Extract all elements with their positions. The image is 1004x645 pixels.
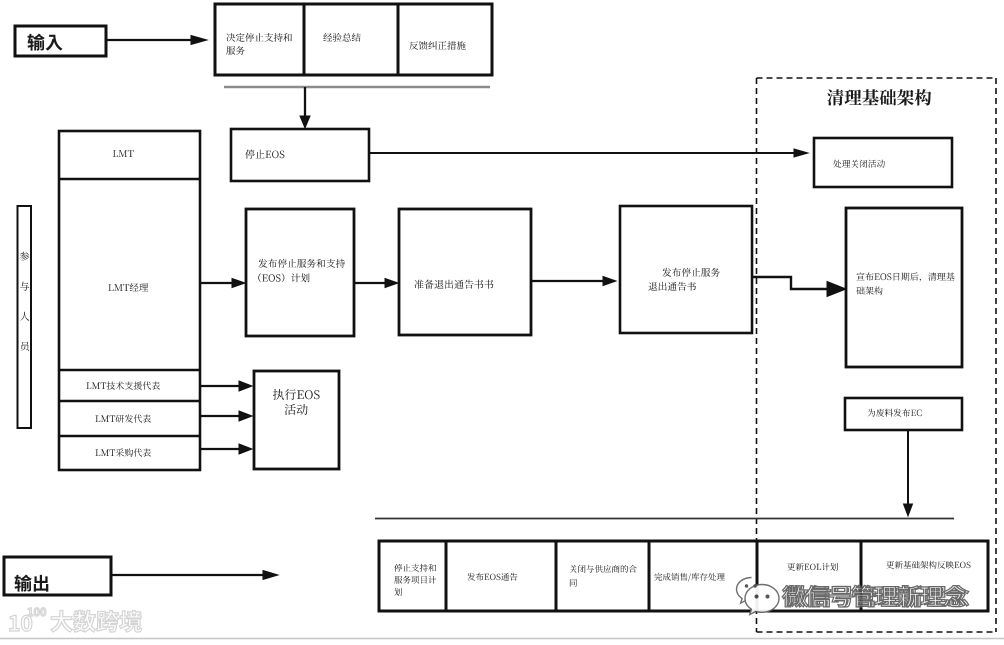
arrow top table to 停止EOS [300,87,310,128]
box LMT roles [59,131,200,470]
table bottom outputs [379,541,988,611]
box 执行EOS活动 [254,371,339,469]
label 为废料发布EC [867,409,921,417]
label 停止支持和服务项目计划 [394,564,436,596]
box 输入 (Input) [15,26,106,56]
top table divider 1 [303,4,306,75]
bottom table divider 4 [756,541,759,611]
watermark WeChat icon [737,578,780,615]
box 参与人员 (participants) [18,206,32,428]
arrow 输出 right [111,571,278,580]
logo 大数跨境 text [51,610,142,632]
label LMT [113,150,134,157]
arrow LMT采购代表 to 执行EOS活动 [200,444,252,454]
label 决定停止支持和服务 [226,33,292,55]
box 停止EOS [231,129,369,181]
bottom table divider 3 [648,541,651,611]
gray separator line [224,86,490,89]
box 处理关闭活动 [814,138,952,187]
label LMT技术支援代表 [87,382,161,390]
bottom page edge line [0,638,1004,640]
box 宣布EOS日期后清理基础架构 [846,208,962,367]
watermark text 微信号管理新理念 [782,585,968,607]
box 发布停止服务和支持(EOS)计划 [246,209,354,336]
LMT divider 1 [59,178,200,181]
logo 10^100 mark [10,608,46,632]
label 发布EOS通告 [467,573,517,581]
label 经验总结 [323,33,361,42]
label 完成销售/库存处理 [654,573,725,582]
arrow 计划 to 准备退出通告书 [354,279,398,288]
arrow 准备 to 发布停止服务退出通告书 [531,277,616,286]
bottom table divider 2 [555,541,558,611]
label 准备退出通告书书 [414,280,493,289]
LMT divider 2 [59,369,200,372]
arrow LMT技术支援代表 to 执行EOS活动 [200,381,252,391]
dashed region right [995,78,997,632]
label 反馈纠正措施 [409,41,465,50]
label 发布停止服务退出通告书 [648,268,720,291]
LMT divider 4 [59,435,200,438]
arrow LMT研发代表 to 执行EOS活动 [200,411,252,421]
label 执行EOS活动 [273,389,320,415]
arrow 发布退出通告书 to 宣布EOS日期 [752,277,846,297]
label LMT采购代表 [96,448,152,456]
label 发布停止服务和支持(EOS)计划 [258,259,345,283]
dashed region left [756,78,758,632]
label 停止EOS [245,150,284,159]
output collector line [375,518,954,520]
label 处理关闭活动 [833,160,885,168]
title 清理基础架构 [827,89,931,106]
table top 3-cell [215,4,492,75]
box 为废料发布EC [845,398,962,430]
arrow LMT经理 to 发布EOS计划 [200,279,245,288]
box 输出 (Output) [4,557,111,595]
box 发布停止服务退出通告书 [620,206,752,333]
label 参与人员 [20,252,29,351]
label LMT研发代表 [96,414,152,422]
label 输入 [28,34,63,51]
label 关闭与供应商的合同 [570,565,637,587]
top table divider 2 [397,4,400,75]
label 输出 [15,575,49,592]
bottom table divider 1 [445,541,448,611]
label 更新基础架构反映EOS [886,561,970,569]
arrow 为废料发布EC down to output line [904,430,913,516]
bottom table divider 5 [860,541,863,611]
dashed region bottom [757,631,997,633]
label LMT经理 [108,283,148,291]
label 更新EOL计划 [787,563,838,571]
LMT divider 3 [59,400,200,403]
label 宣布EOS日期后清理基础架构 [856,272,954,294]
arrow 停止EOS to 处理关闭活动 [369,149,808,157]
arrow 输入 to top table [106,36,207,45]
box 准备退出通告书书 [399,209,531,335]
dashed region top [757,77,997,79]
